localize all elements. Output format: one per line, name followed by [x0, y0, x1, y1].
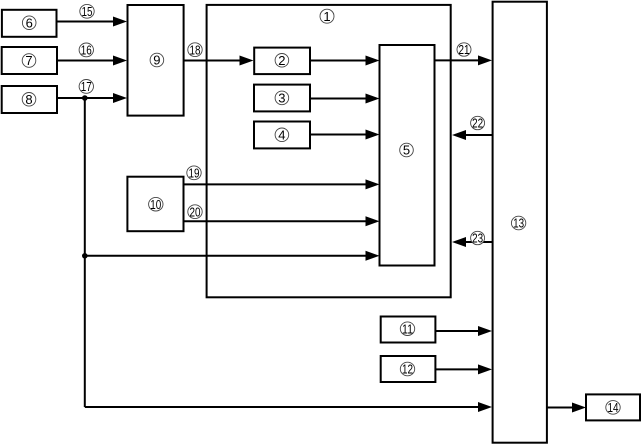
label 10 [149, 197, 163, 212]
block 3 [254, 85, 310, 112]
arrowhead into block5 from block4 [366, 130, 380, 140]
arrowhead into block13 from block12 [478, 364, 492, 374]
svg-text:13: 13 [513, 216, 524, 231]
wire block13 to block14 [547, 407, 573, 409]
wire 19 (block10 to block5) [184, 183, 367, 185]
wire block2 to block5 [310, 60, 367, 62]
svg-text:19: 19 [189, 165, 200, 180]
wire 21 (block5 to block13) [435, 59, 480, 61]
node dot on wire 17 [82, 95, 88, 101]
wire 16 (block7 to block9) [57, 60, 114, 62]
wire block11 to block13 [435, 330, 479, 332]
arrowhead into block5 from block3 [366, 94, 380, 104]
label 1 [320, 9, 334, 24]
label 8 [22, 92, 36, 107]
svg-text:6: 6 [26, 15, 33, 30]
wire 17 (block8 to block9) [57, 97, 114, 99]
label 13 [511, 216, 525, 231]
arrowhead into block13 bottom wire [478, 402, 492, 412]
svg-text:5: 5 [403, 143, 410, 158]
block 6 [2, 10, 57, 37]
block 8 [2, 86, 57, 113]
svg-text:23: 23 [472, 231, 483, 246]
label 6 [22, 15, 36, 30]
block 12 [381, 356, 436, 382]
svg-text:8: 8 [25, 92, 32, 107]
label 9 [150, 53, 164, 68]
wire block12 to block13 [435, 368, 479, 370]
wire block3 to block5 [310, 98, 367, 100]
svg-text:17: 17 [81, 79, 92, 94]
block 14 [586, 394, 640, 420]
svg-text:20: 20 [190, 204, 201, 219]
arrowhead wire22 pointing left into block1 [452, 130, 466, 140]
svg-text:15: 15 [82, 4, 93, 19]
wire node branch to block5 [85, 255, 367, 257]
svg-text:14: 14 [608, 400, 619, 415]
arrowhead into block9 wire17 [113, 93, 127, 103]
svg-text:21: 21 [459, 42, 470, 57]
wire vertical from node on wire 17 [84, 98, 86, 407]
label 4 [275, 127, 289, 142]
svg-text:11: 11 [402, 321, 413, 336]
label 16 [79, 43, 93, 58]
arrowhead wire23 pointing left into block1 [452, 237, 466, 247]
arrowhead into block14 [572, 403, 586, 413]
label 21 [457, 42, 471, 57]
label 12 [400, 362, 414, 377]
wire 18 (block9 to block2) [184, 60, 241, 62]
svg-text:18: 18 [190, 42, 201, 57]
svg-text:12: 12 [402, 362, 413, 377]
svg-text:9: 9 [153, 53, 160, 68]
arrowhead into block5 wire19 [366, 179, 380, 189]
label 11 [400, 321, 414, 336]
block 9 [128, 5, 184, 116]
svg-text:4: 4 [278, 127, 285, 142]
block 10 [127, 177, 183, 232]
label 18 [188, 42, 202, 57]
block 4 [254, 122, 310, 149]
label 3 [275, 91, 289, 106]
label 20 [188, 204, 202, 219]
block 7 [2, 47, 57, 74]
arrowhead into block13 from block11 [478, 326, 492, 336]
label 2 [275, 53, 289, 68]
block 11 [381, 317, 436, 343]
svg-text:16: 16 [81, 43, 92, 58]
wire bottom (node to block13) [85, 406, 479, 408]
arrowhead into block5 from block2 [366, 56, 380, 66]
label 5 [400, 143, 414, 158]
svg-text:3: 3 [278, 91, 285, 106]
svg-text:10: 10 [150, 197, 161, 212]
arrowhead into block2 wire18 [240, 56, 254, 66]
svg-text:2: 2 [278, 53, 285, 68]
arrowhead into block9 wire16 [113, 56, 127, 66]
wire 23 (block13 to block1, leftwards) [465, 241, 492, 243]
arrowhead into block5 wire20 [366, 216, 380, 226]
wire 20 (block10 to block5) [184, 220, 367, 222]
label 19 [187, 165, 201, 180]
label 7 [22, 53, 36, 68]
arrowhead into block9 wire15 [113, 17, 127, 27]
svg-text:22: 22 [472, 116, 483, 131]
block 13 [493, 2, 547, 443]
wire 15 (block6 to block9) [57, 21, 115, 23]
arrowhead into block5 node branch [366, 251, 380, 261]
node dot on branch wire [82, 253, 88, 259]
wire block4 to block5 [310, 134, 367, 136]
block 1 (outer container box) [207, 5, 451, 297]
svg-text:1: 1 [323, 9, 330, 24]
svg-text:7: 7 [25, 53, 32, 68]
label 23 [471, 231, 485, 246]
label 17 [79, 79, 93, 94]
wire 22 (block13 to block1, leftwards) [465, 134, 492, 136]
label 22 [471, 116, 485, 131]
block 2 [254, 48, 310, 75]
block 5 [380, 45, 435, 266]
label 15 [80, 4, 94, 19]
label 14 [606, 400, 620, 415]
arrowhead into block13 wire21 [478, 55, 492, 65]
